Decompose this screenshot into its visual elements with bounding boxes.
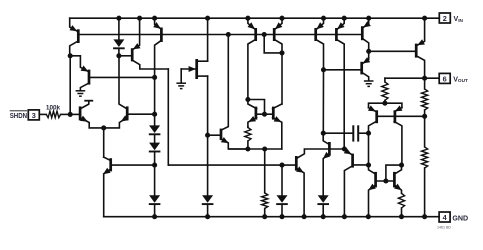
jfet J1	[181, 18, 207, 136]
node diff tail	[101, 125, 106, 130]
node D4 ground rail	[152, 214, 157, 219]
svg-text:VOUT: VOUT	[453, 75, 468, 83]
wire HI bases	[376, 180, 394, 182]
label GND	[452, 214, 468, 222]
transistor Q19 PNP bandgap right	[394, 105, 402, 165]
wire Q4 collector chain	[154, 77, 156, 114]
ground Q2 collector	[76, 91, 86, 96]
wire x368 mid	[368, 133, 370, 165]
diode D3	[149, 135, 161, 166]
resistor R2 to ground	[262, 193, 268, 217]
transistor Q23 NPN diff right	[104, 56, 155, 128]
resistor R6	[398, 193, 404, 216]
svg-text:GND: GND	[452, 214, 468, 222]
transistor Q22 NPN diff left	[70, 102, 104, 128]
svg-text:VIN: VIN	[454, 15, 464, 23]
node D7 ground rail	[321, 214, 326, 219]
node Q12 emitter ground rail	[302, 214, 307, 219]
node B diode tap	[279, 163, 284, 168]
label VOUT	[453, 75, 468, 83]
node cap right junction	[366, 131, 371, 136]
node F emitter junction	[342, 146, 347, 151]
diode D5	[202, 195, 214, 217]
wire SHDN to resistor	[39, 113, 46, 115]
transistor Q11 NPN mirror right	[273, 104, 282, 149]
svg-text:4: 4	[443, 213, 448, 222]
transistor Q5 NPN	[208, 35, 248, 150]
node Q8 collector junction	[321, 67, 326, 72]
label 1461 BD	[437, 226, 451, 230]
transistor Q4 PNP	[153, 18, 161, 77]
ground J1 gate	[176, 83, 186, 88]
wire Q3 collector down	[167, 69, 169, 165]
node Q3 emitter rail	[137, 16, 142, 21]
svg-text:1461 BD: 1461 BD	[437, 226, 451, 230]
node diode chain junction	[152, 163, 157, 168]
wire Q7 collector down	[281, 53, 283, 104]
node H collector junction	[366, 163, 371, 168]
wire top supply rail	[70, 17, 440, 19]
label SHDN	[10, 111, 27, 120]
node diff base junction	[152, 112, 157, 117]
node D5 ground rail	[205, 214, 210, 219]
wire VOUT	[385, 77, 439, 79]
node R5 ground rail	[422, 214, 427, 219]
node Q16 collector junction	[366, 49, 371, 54]
transistor Q18 PNP bandgap left	[368, 105, 377, 133]
wire Q14 base	[324, 69, 362, 71]
pin box 4 GND	[439, 212, 450, 222]
wire ground rail	[104, 216, 439, 218]
node R1 bottom	[245, 146, 250, 151]
svg-text:3: 3	[32, 111, 36, 120]
pin box 3 SHDN	[28, 110, 39, 120]
node D1 top	[116, 16, 121, 21]
node clamp base junction	[152, 75, 157, 80]
label 100k	[46, 104, 61, 111]
node Q20 emitter ground rail	[366, 214, 371, 219]
node I collector junction	[399, 163, 404, 168]
node Q15 collector ground rail	[342, 214, 347, 219]
wire base bias rail	[78, 34, 362, 36]
node P4 emitter rail	[342, 16, 347, 21]
wire bg bases	[377, 115, 425, 117]
node R2 ground rail	[262, 214, 267, 219]
wire HI base tie	[386, 165, 402, 181]
node HI base center	[383, 178, 388, 183]
wire Q7 collector-base tie	[264, 35, 282, 53]
node P3 emitter rail	[321, 16, 326, 21]
node bg base divider	[422, 114, 427, 119]
transistor Q8 PNP	[316, 18, 324, 70]
wire mirror tie	[248, 100, 265, 115]
wire Q3 base	[119, 55, 132, 57]
transistor Q6 PNP	[248, 18, 256, 99]
resistor R5	[422, 116, 428, 216]
wire output base	[369, 50, 416, 52]
transistor Q17 PNP pass	[416, 18, 425, 78]
wire signal B	[168, 164, 295, 166]
transistor Q7 PNP diode-connected	[274, 18, 282, 53]
resistor R1 emitter degeneration	[245, 127, 251, 149]
wire Q2 base	[89, 76, 155, 78]
node emitter bus tap	[262, 146, 267, 151]
label VIN	[454, 15, 464, 23]
node cap left junction	[321, 131, 326, 136]
tcap Q22 collector	[84, 100, 93, 102]
node P1 emitter rail	[245, 16, 250, 21]
transistor Q15 PNP	[344, 148, 369, 217]
pin box 6 VOUT	[439, 73, 450, 83]
transistor Q12 NPN	[296, 149, 344, 217]
node R6 ground rail	[399, 214, 404, 219]
node SHDN junction	[68, 112, 73, 117]
diode D2	[149, 114, 161, 134]
node P2 emitter rail	[279, 16, 284, 21]
node bg emitter junction	[382, 101, 387, 106]
transistor Q9 PNP	[336, 18, 344, 149]
transistor Q13 NPN	[323, 133, 330, 195]
diode D1	[113, 18, 125, 56]
node J1 source junction	[205, 133, 210, 138]
node pass emitter rail	[422, 16, 427, 21]
wire resistor to node	[61, 113, 71, 115]
svg-text:SHDN: SHDN	[10, 113, 27, 120]
svg-text:100k: 100k	[46, 104, 61, 111]
node Q10 collector junction	[245, 97, 250, 102]
diode D6	[276, 195, 288, 217]
wire Q1 collector to SHDN node	[69, 56, 71, 115]
node J1 drain rail	[205, 16, 210, 21]
resistor R-shdn 100k	[46, 111, 60, 118]
node Q4 emitter rail	[152, 16, 157, 21]
capacitor C1	[323, 126, 368, 140]
wire B tap down	[281, 165, 283, 195]
node Q1 collector	[68, 53, 73, 58]
wire J1 source down	[207, 136, 209, 196]
node D6 ground rail	[279, 214, 284, 219]
diode D7	[317, 195, 329, 217]
transistor Q21 NPN	[394, 165, 402, 193]
transistor Q2 PNP shutdown clamp	[70, 56, 89, 91]
node Q7 collector junction	[279, 50, 284, 55]
node Q5 collector bias rail	[226, 32, 231, 37]
wire emitter bus	[229, 148, 282, 150]
svg-text:6: 6	[443, 75, 447, 84]
diode D4	[149, 165, 161, 217]
wire x323 down	[322, 70, 324, 133]
transistor Q1 PNP	[70, 18, 79, 56]
transistor Q14 PNP	[362, 51, 371, 80]
transistor Q24 NPN tail source	[103, 128, 155, 217]
transistor Q3 PNP	[132, 18, 168, 69]
svg-text:2: 2	[443, 14, 447, 23]
wire mirror bases	[256, 113, 273, 115]
transistor Q20 NPN	[368, 165, 376, 217]
transistor Q10 NPN mirror left	[248, 100, 257, 127]
resistor R4	[422, 78, 428, 116]
node D1 cathode	[116, 53, 121, 58]
wire tap down to R2	[264, 149, 266, 193]
resistor R3	[382, 78, 388, 103]
node Q7 tie rail	[262, 32, 267, 37]
node A emitter rail	[366, 16, 371, 21]
node mirror base junction	[262, 112, 267, 117]
ground Q14 collector	[364, 81, 374, 86]
wire bg emitters	[369, 103, 402, 108]
pin box 2 VIN	[439, 13, 450, 23]
node VOUT junction	[422, 76, 427, 81]
transistor Q16 PNP	[362, 18, 371, 51]
